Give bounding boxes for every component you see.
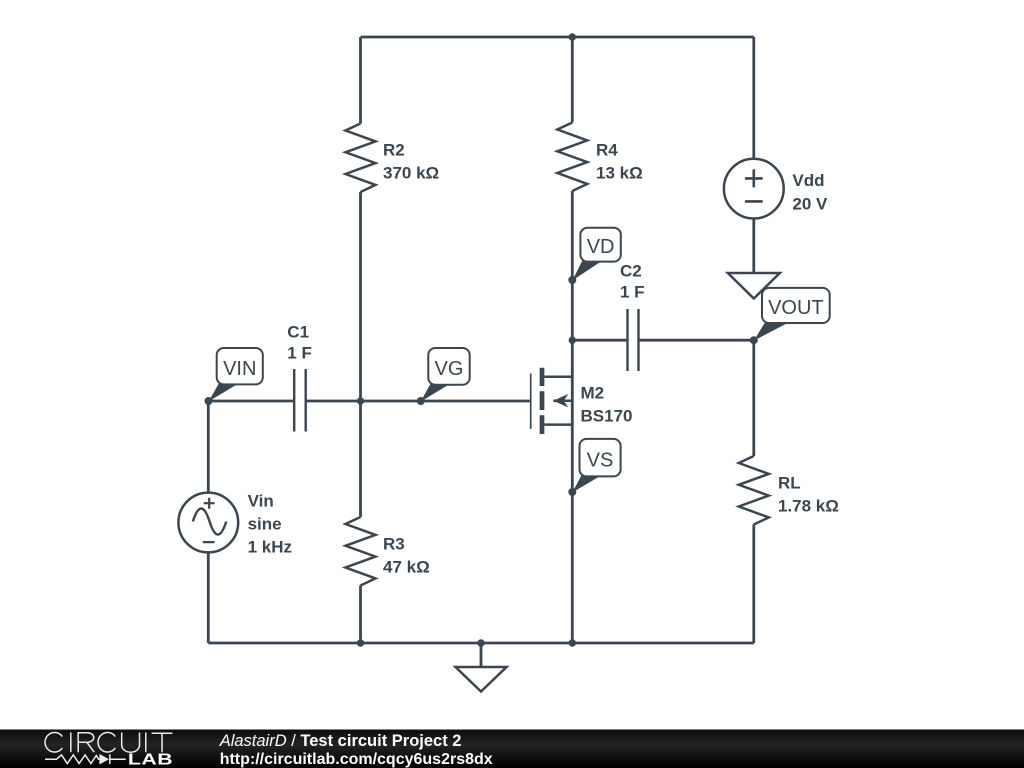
svg-text:13 kΩ: 13 kΩ — [596, 164, 643, 183]
svg-text:R4: R4 — [596, 141, 618, 160]
svg-text:LAB: LAB — [128, 750, 173, 768]
svg-text:20 V: 20 V — [792, 195, 828, 214]
svg-text:BS170: BS170 — [581, 407, 633, 426]
svg-text:VIN: VIN — [223, 358, 256, 380]
svg-text:VD: VD — [587, 236, 615, 258]
svg-text:RL: RL — [778, 474, 801, 493]
svg-text:1.78 kΩ: 1.78 kΩ — [778, 497, 839, 516]
svg-text:R3: R3 — [383, 535, 405, 554]
svg-text:1 F: 1 F — [287, 344, 312, 363]
svg-text:370 kΩ: 370 kΩ — [383, 164, 439, 183]
svg-text:http://circuitlab.com/cqcy6us2: http://circuitlab.com/cqcy6us2rs8dx — [220, 751, 493, 768]
svg-text:1 kHz: 1 kHz — [248, 538, 292, 557]
svg-text:47 kΩ: 47 kΩ — [383, 558, 430, 577]
svg-text:VOUT: VOUT — [768, 297, 824, 319]
svg-text:C1: C1 — [287, 323, 309, 342]
svg-text:Vdd: Vdd — [792, 171, 824, 190]
svg-text:M2: M2 — [581, 384, 605, 403]
svg-text:1 F: 1 F — [620, 283, 645, 302]
svg-text:C2: C2 — [620, 262, 642, 281]
svg-text:Vin: Vin — [248, 492, 274, 511]
svg-text:R2: R2 — [383, 141, 405, 160]
svg-text:VG: VG — [435, 358, 464, 380]
svg-text:VS: VS — [587, 449, 614, 471]
svg-text:sine: sine — [248, 515, 282, 534]
svg-text:AlastairD / Test circuit Proje: AlastairD / Test circuit Project 2 — [219, 732, 462, 750]
